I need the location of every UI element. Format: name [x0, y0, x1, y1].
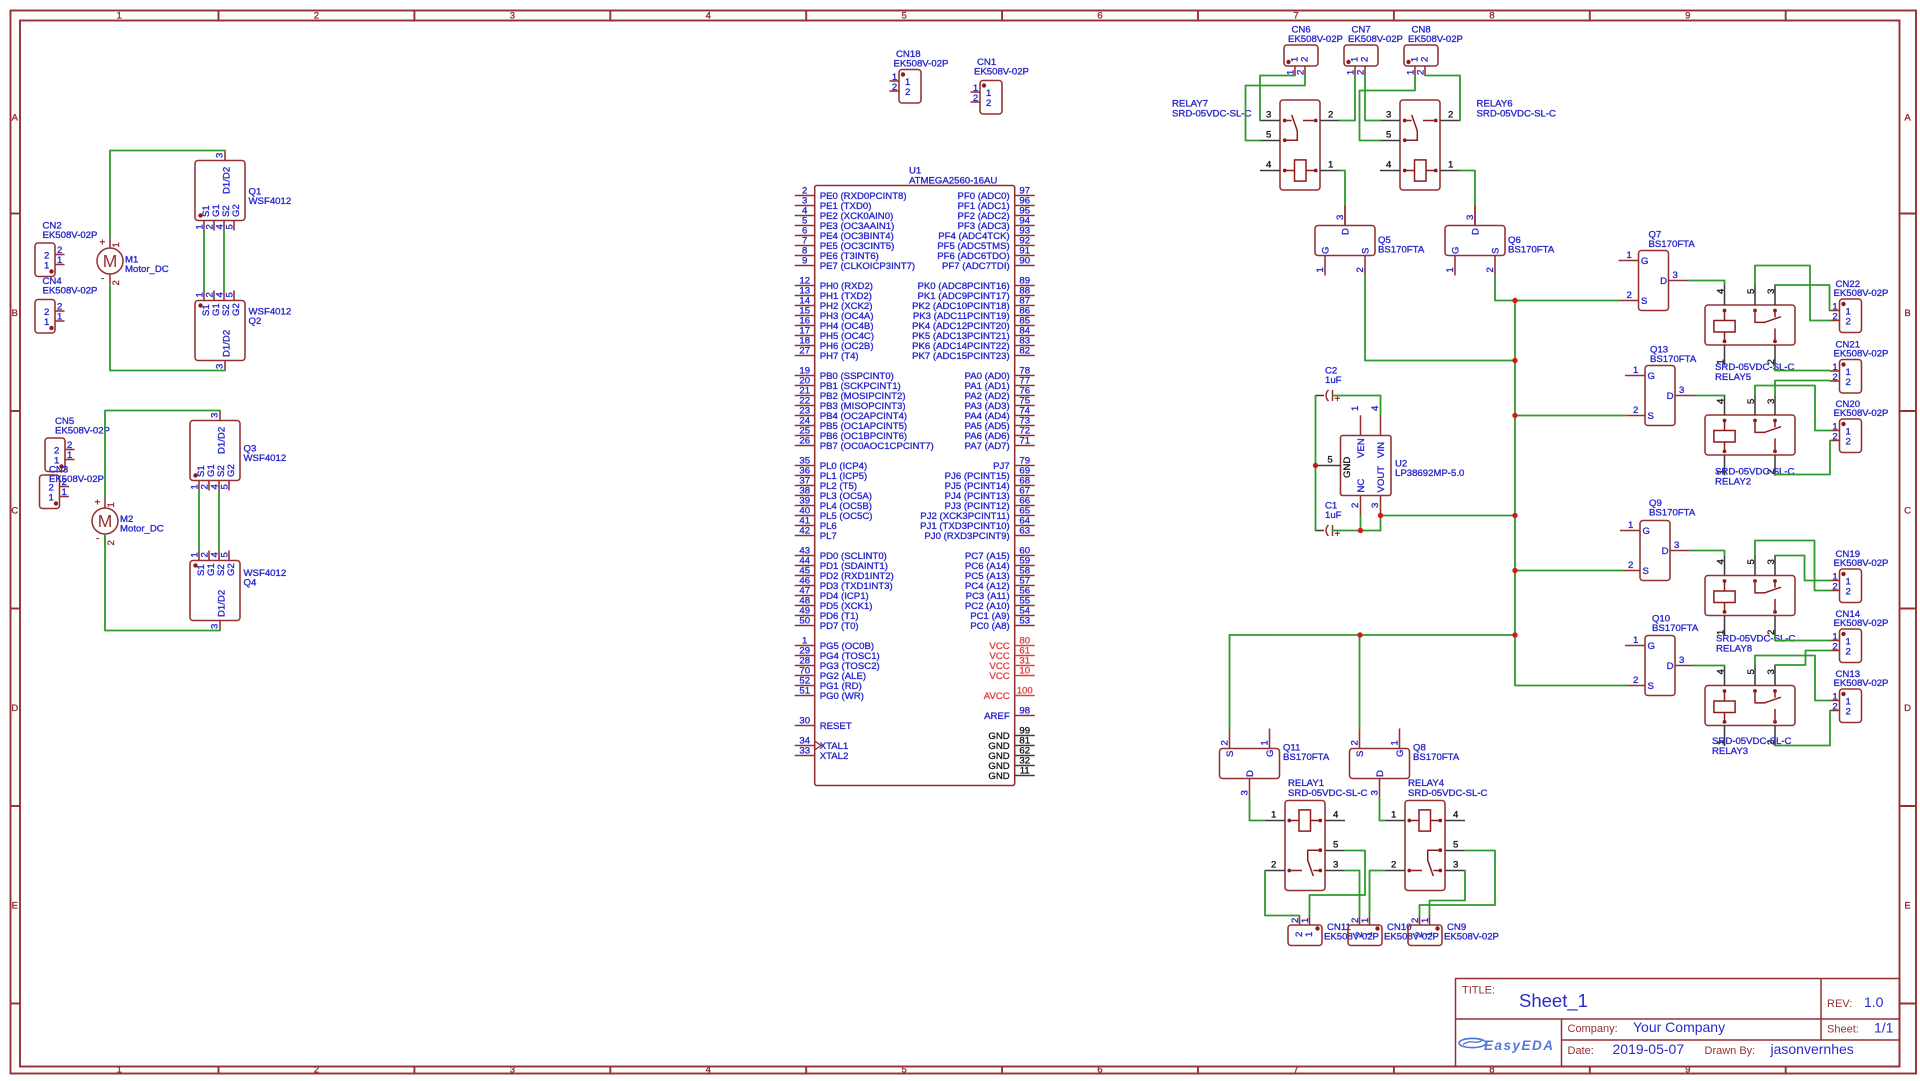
- svg-text:S: S: [1648, 411, 1654, 422]
- svg-text:1: 1: [1328, 160, 1333, 171]
- svg-text:PJ0 (RXD3PCINT9): PJ0 (RXD3PCINT9): [924, 531, 1009, 542]
- svg-text:SRD-05VDC-SL-C: SRD-05VDC-SL-C: [1408, 788, 1488, 799]
- svg-text:2: 2: [1360, 57, 1371, 62]
- svg-text:Sheet:: Sheet:: [1827, 1024, 1859, 1036]
- connector CN14: [1830, 609, 1888, 663]
- transistor Q11: [1220, 729, 1330, 799]
- junction: [1358, 528, 1363, 533]
- junction: [1357, 632, 1362, 637]
- wire RELAY8.3 to CN19.1: [1775, 556, 1830, 581]
- svg-text:Q2: Q2: [249, 316, 262, 327]
- svg-text:3: 3: [1766, 669, 1777, 674]
- svg-text:5: 5: [1746, 669, 1757, 674]
- svg-text:AREF: AREF: [984, 711, 1010, 722]
- wire CN6.2 to RELAY7.5: [1246, 76, 1306, 141]
- svg-text:SRD-05VDC-SL-C: SRD-05VDC-SL-C: [1477, 109, 1557, 120]
- svg-text:RELAY8: RELAY8: [1716, 644, 1752, 655]
- svg-text:Date:: Date:: [1568, 1045, 1594, 1057]
- svg-text:EK508V-02P: EK508V-02P: [1834, 558, 1889, 569]
- svg-text:1: 1: [49, 493, 54, 504]
- svg-text:2: 2: [1832, 582, 1837, 593]
- svg-text:1: 1: [1420, 918, 1431, 923]
- svg-text:8: 8: [1489, 11, 1494, 22]
- svg-text:A: A: [12, 113, 19, 124]
- svg-text:EK508V-02P: EK508V-02P: [49, 474, 104, 485]
- svg-text:11: 11: [1020, 766, 1030, 777]
- svg-text:E: E: [12, 900, 18, 911]
- svg-text:5: 5: [225, 224, 236, 229]
- junction: [1512, 632, 1517, 637]
- connector CN10: [1348, 916, 1439, 946]
- svg-text:42: 42: [799, 526, 810, 537]
- wire CN8.2 to RELAY6.2: [1425, 76, 1460, 121]
- svg-text:1: 1: [44, 317, 49, 328]
- svg-text:98: 98: [1019, 706, 1030, 717]
- wire RELAY3.5 to CN13.1: [1755, 656, 1830, 701]
- svg-text:D: D: [1660, 276, 1667, 287]
- svg-text:4: 4: [1716, 669, 1727, 675]
- wire CN7.1 to RELAY7.2: [1340, 76, 1355, 121]
- svg-text:5: 5: [220, 552, 231, 557]
- svg-text:S: S: [1648, 681, 1654, 692]
- svg-text:1: 1: [57, 255, 62, 266]
- svg-text:2: 2: [1350, 740, 1361, 745]
- svg-text:1: 1: [57, 312, 62, 323]
- svg-text:82: 82: [1019, 346, 1030, 357]
- svg-text:3: 3: [1679, 385, 1684, 396]
- connector CN19: [1830, 549, 1888, 603]
- wire U2.VOUT drop: [1380, 516, 1382, 531]
- wire RELAY5.3 to CN22.1: [1775, 285, 1830, 311]
- svg-text:G2: G2: [226, 563, 237, 576]
- svg-text:5: 5: [1746, 399, 1757, 404]
- svg-text:3: 3: [1370, 790, 1381, 795]
- svg-text:1: 1: [1445, 267, 1456, 272]
- svg-text:51: 51: [799, 686, 810, 697]
- svg-text:+: +: [100, 238, 106, 249]
- svg-text:EK508V-02P: EK508V-02P: [1834, 678, 1889, 689]
- svg-text:5: 5: [902, 11, 907, 22]
- svg-text:6: 6: [1097, 11, 1102, 22]
- svg-text:PG0 (WR): PG0 (WR): [820, 691, 864, 702]
- connector CN13: [1830, 669, 1888, 723]
- svg-text:SRD-05VDC-SL-C: SRD-05VDC-SL-C: [1172, 109, 1252, 120]
- svg-text:1uF: 1uF: [1325, 375, 1342, 386]
- svg-text:D1/D2: D1/D2: [217, 427, 228, 454]
- wire CN21.2 to RELAY2.3: [1775, 381, 1830, 395]
- svg-text:EK508V-02P: EK508V-02P: [1834, 288, 1889, 299]
- svg-text:90: 90: [1019, 256, 1030, 267]
- svg-text:EK508V-02P: EK508V-02P: [43, 286, 98, 297]
- svg-text:E: E: [1904, 900, 1910, 911]
- svg-text:D: D: [1667, 661, 1674, 672]
- connector CN6: [1284, 25, 1343, 76]
- connector CN2: [35, 221, 97, 277]
- svg-text:A: A: [1904, 113, 1911, 124]
- svg-text:-: -: [101, 274, 104, 285]
- wire Q9.D to RELAY8.4: [1690, 551, 1725, 556]
- junction: [1512, 568, 1517, 573]
- svg-text:6: 6: [1097, 1065, 1102, 1076]
- svg-text:D: D: [1375, 770, 1386, 777]
- svg-text:RELAY2: RELAY2: [1715, 477, 1751, 488]
- svg-text:2: 2: [1296, 70, 1307, 75]
- svg-text:VEN: VEN: [1356, 438, 1367, 458]
- svg-text:50: 50: [799, 616, 810, 627]
- svg-text:PA7 (AD7): PA7 (AD7): [965, 441, 1010, 452]
- svg-text:1: 1: [1364, 932, 1375, 937]
- svg-text:EK508V-02P: EK508V-02P: [1834, 408, 1889, 419]
- svg-text:Q4: Q4: [244, 578, 257, 589]
- svg-text:PL7: PL7: [820, 531, 837, 542]
- wire Q13.D to RELAY2.4: [1695, 395, 1725, 397]
- svg-text:Sheet_1: Sheet_1: [1519, 990, 1588, 1012]
- svg-text:2: 2: [1846, 377, 1851, 388]
- wire M1- to Q2 drain: [110, 286, 225, 371]
- svg-text:3: 3: [215, 364, 226, 369]
- svg-text:2019-05-07: 2019-05-07: [1613, 1041, 1685, 1057]
- svg-text:WSF4012: WSF4012: [244, 453, 287, 464]
- svg-text:jasonvernhes: jasonvernhes: [1770, 1041, 1854, 1057]
- svg-text:VCC: VCC: [989, 671, 1009, 682]
- svg-text:3: 3: [210, 624, 221, 629]
- connector CN9: [1408, 916, 1499, 946]
- svg-text:1: 1: [1633, 635, 1638, 646]
- svg-text:PE7 (CLKOICP3INT7): PE7 (CLKOICP3INT7): [820, 261, 915, 272]
- svg-text:3: 3: [1386, 110, 1391, 121]
- svg-text:3: 3: [1370, 503, 1381, 508]
- svg-text:53: 53: [1019, 616, 1030, 627]
- wire C2+ to U2.VIN: [1333, 396, 1381, 416]
- svg-text:EK508V-02P: EK508V-02P: [43, 230, 98, 241]
- svg-text:1: 1: [117, 1065, 122, 1076]
- svg-text:BS170FTA: BS170FTA: [1508, 245, 1555, 256]
- svg-text:PH7 (T4): PH7 (T4): [820, 351, 859, 362]
- capacitor C1: [1316, 501, 1342, 541]
- svg-text:NC: NC: [1356, 479, 1367, 493]
- svg-text:71: 71: [1019, 436, 1030, 447]
- svg-text:1: 1: [1300, 918, 1311, 923]
- svg-text:+: +: [95, 498, 101, 509]
- svg-text:PF7 (ADC7TDI): PF7 (ADC7TDI): [942, 261, 1010, 272]
- svg-text:3: 3: [1766, 289, 1777, 294]
- svg-text:1: 1: [1391, 810, 1396, 821]
- transistor Q13: [1625, 345, 1697, 426]
- svg-text:BS170FTA: BS170FTA: [1652, 623, 1699, 634]
- relay RELAY3: [1705, 665, 1795, 757]
- transistor Q5: [1315, 206, 1425, 276]
- svg-text:PK7 (ADC15PCINT23): PK7 (ADC15PCINT23): [912, 351, 1010, 362]
- wire RELAY3.2 to CN13.2: [1775, 711, 1830, 746]
- svg-text:EK508V-02P: EK508V-02P: [1288, 34, 1343, 45]
- svg-text:10: 10: [1019, 666, 1030, 677]
- svg-text:2: 2: [892, 82, 897, 93]
- wire Q10.D to RELAY3.4: [1693, 665, 1725, 667]
- junction: [1512, 413, 1517, 418]
- wire RELAY5.5 to CN22.2: [1755, 266, 1830, 321]
- svg-text:VOUT: VOUT: [1376, 466, 1387, 493]
- wire U2.VOUT to 5V rail: [1381, 515, 1516, 517]
- svg-text:3: 3: [1679, 655, 1684, 666]
- capacitor C2: [1316, 366, 1342, 406]
- svg-text:2: 2: [973, 93, 978, 104]
- wire CN6.1 to RELAY7.3: [1260, 76, 1295, 121]
- wire CN14.2 to RELAY3.3: [1775, 651, 1830, 666]
- svg-text:5: 5: [1386, 130, 1391, 141]
- svg-text:BS170FTA: BS170FTA: [1378, 245, 1425, 256]
- svg-text:TITLE:: TITLE:: [1462, 985, 1495, 997]
- junction: [1512, 298, 1517, 303]
- svg-text:G: G: [1395, 750, 1406, 757]
- IC U2 LP38692MP-5.0: [1316, 405, 1465, 516]
- connector CN11: [1288, 916, 1379, 946]
- wire Q7.D to RELAY5.4: [1689, 281, 1725, 285]
- svg-text:26: 26: [799, 436, 810, 447]
- transistor Q6: [1445, 206, 1555, 276]
- svg-text:2: 2: [106, 540, 117, 545]
- svg-text:D: D: [1904, 703, 1911, 714]
- connector CN21: [1830, 340, 1888, 394]
- svg-text:2: 2: [1846, 587, 1851, 598]
- svg-text:1/1: 1/1: [1874, 1020, 1894, 1036]
- svg-text:B: B: [1904, 308, 1910, 319]
- svg-text:LP38692MP-5.0: LP38692MP-5.0: [1395, 468, 1464, 479]
- svg-text:G: G: [1641, 256, 1648, 267]
- svg-text:G: G: [1643, 526, 1650, 537]
- svg-text:2: 2: [1846, 647, 1851, 658]
- wire RELAY8.2 to CN14.1: [1775, 636, 1830, 641]
- svg-text:D: D: [1341, 228, 1352, 235]
- connector CN4: [35, 276, 97, 333]
- svg-text:EasyEDA: EasyEDA: [1484, 1038, 1555, 1053]
- svg-text:3: 3: [510, 1065, 515, 1076]
- svg-text:PC0 (A8): PC0 (A8): [970, 621, 1009, 632]
- svg-text:2: 2: [1356, 70, 1367, 75]
- svg-text:30: 30: [799, 716, 810, 727]
- wire Q1.S1 to Q2.S1: [203, 231, 205, 291]
- svg-text:2: 2: [111, 280, 122, 285]
- svg-text:2: 2: [1832, 702, 1837, 713]
- svg-text:2: 2: [1220, 740, 1231, 745]
- svg-text:3: 3: [1766, 399, 1777, 404]
- svg-text:D1/D2: D1/D2: [222, 167, 233, 194]
- svg-text:1: 1: [106, 502, 117, 507]
- svg-text:4: 4: [1453, 810, 1459, 821]
- svg-text:EK508V-02P: EK508V-02P: [974, 66, 1029, 77]
- svg-text:1: 1: [62, 487, 67, 498]
- wire Q1.S2 to Q2.S2: [223, 231, 225, 291]
- IC U1 ATMEGA2560-16AU: [795, 166, 1035, 786]
- svg-text:PD7 (T0): PD7 (T0): [820, 621, 859, 632]
- svg-text:3: 3: [1674, 540, 1679, 551]
- svg-text:EK508V-02P: EK508V-02P: [1444, 932, 1499, 943]
- transistor Q1: [195, 151, 292, 231]
- svg-text:3: 3: [510, 11, 515, 22]
- connector CN5: [45, 416, 110, 472]
- svg-text:G: G: [1321, 247, 1332, 254]
- svg-text:27: 27: [799, 346, 810, 357]
- svg-text:D1/D2: D1/D2: [222, 330, 233, 357]
- svg-text:2: 2: [1485, 267, 1496, 272]
- svg-text:2: 2: [1846, 707, 1851, 718]
- relay RELAY4: [1385, 778, 1488, 891]
- svg-text:GND: GND: [988, 771, 1009, 782]
- svg-text:2: 2: [1448, 110, 1453, 121]
- svg-text:1: 1: [1448, 160, 1453, 171]
- wire RELAY1.2 to CN11.2: [1265, 871, 1300, 916]
- svg-text:2: 2: [1832, 432, 1837, 443]
- svg-text:1: 1: [44, 261, 49, 272]
- svg-text:M: M: [103, 251, 118, 271]
- transistor Q8: [1350, 729, 1460, 799]
- svg-text:S: S: [1641, 296, 1647, 307]
- svg-text:BS170FTA: BS170FTA: [1413, 752, 1460, 763]
- svg-text:1: 1: [1350, 406, 1361, 411]
- svg-text:EK508V-02P: EK508V-02P: [1348, 34, 1403, 45]
- svg-text:1: 1: [1424, 932, 1435, 937]
- svg-text:4: 4: [1266, 160, 1272, 171]
- transistor Q9: [1620, 498, 1696, 581]
- svg-text:1: 1: [1627, 250, 1632, 261]
- svg-text:1.0: 1.0: [1864, 994, 1884, 1010]
- svg-text:Motor_DC: Motor_DC: [125, 264, 169, 275]
- motor M1: [97, 238, 169, 286]
- svg-text:3: 3: [1266, 110, 1271, 121]
- wire RELAY6.1 to Q6.D: [1460, 171, 1475, 206]
- pin stub Q6.D: [1474, 206, 1476, 226]
- svg-text:2: 2: [1350, 503, 1361, 508]
- relay RELAY1: [1265, 778, 1368, 891]
- wire RELAY2.2 to CN20.2: [1775, 441, 1830, 476]
- svg-text:5: 5: [220, 484, 231, 489]
- svg-text:D: D: [1662, 546, 1669, 557]
- svg-text:SRD-05VDC-SL-C: SRD-05VDC-SL-C: [1288, 788, 1368, 799]
- svg-text:D: D: [1667, 391, 1674, 402]
- svg-text:RESET: RESET: [820, 721, 852, 732]
- svg-text:2: 2: [905, 87, 910, 98]
- svg-text:4: 4: [1370, 405, 1381, 411]
- svg-text:G: G: [1648, 641, 1655, 652]
- wire M2- to Q4 drain: [105, 535, 220, 631]
- svg-text:1: 1: [1628, 520, 1633, 531]
- wire C1+ to U2 outputs: [1333, 530, 1381, 532]
- svg-text:C: C: [11, 505, 18, 516]
- svg-text:EK508V-02P: EK508V-02P: [1834, 349, 1889, 360]
- svg-text:B: B: [12, 308, 18, 319]
- svg-text:7: 7: [1293, 1065, 1298, 1076]
- svg-text:WSF4012: WSF4012: [249, 196, 292, 207]
- wire Q8.D to RELAY4.1: [1380, 799, 1386, 821]
- connector CN18: [890, 49, 949, 103]
- svg-text:3: 3: [1240, 790, 1251, 795]
- svg-text:2: 2: [314, 11, 319, 22]
- junction: [1512, 513, 1517, 518]
- transistor Q4: [190, 551, 287, 631]
- transistor Q10: [1625, 614, 1699, 696]
- svg-text:D: D: [1245, 770, 1256, 777]
- wire 5V rail to Q11/Q8: [1230, 634, 1516, 636]
- svg-text:S: S: [1225, 751, 1236, 757]
- wire to Q11.S: [1229, 635, 1231, 729]
- wire 5V rail to Q10.S: [1515, 635, 1627, 686]
- svg-text:2: 2: [1846, 437, 1851, 448]
- svg-text:Your Company: Your Company: [1633, 1019, 1725, 1035]
- svg-text:D1/D2: D1/D2: [217, 590, 228, 617]
- wire RELAY8.5 to CN19.2: [1755, 541, 1830, 591]
- svg-text:1: 1: [111, 242, 122, 247]
- wire RELAY4.3 to CN9.1: [1430, 871, 1466, 916]
- svg-text:1: 1: [1390, 740, 1401, 745]
- wire U2.NC drop: [1360, 516, 1362, 531]
- svg-text:4: 4: [1716, 398, 1727, 404]
- svg-text:3: 3: [1453, 860, 1458, 871]
- svg-text:-: -: [96, 534, 99, 545]
- wire Q3.S1 to Q4.S1: [198, 491, 200, 551]
- wire Q11.D to RELAY1.1: [1250, 799, 1266, 821]
- svg-text:2: 2: [1627, 290, 1632, 301]
- wire RELAY7.1 to Q5.D: [1340, 171, 1345, 206]
- svg-text:XTAL2: XTAL2: [820, 751, 849, 762]
- svg-text:9: 9: [802, 256, 807, 267]
- relay RELAY2: [1705, 395, 1795, 488]
- svg-text:EK508V-02P: EK508V-02P: [1408, 34, 1463, 45]
- svg-text:VIN: VIN: [1376, 442, 1387, 458]
- svg-text:EK508V-02P: EK508V-02P: [894, 59, 949, 70]
- svg-text:G: G: [1648, 371, 1655, 382]
- svg-text:5: 5: [1333, 840, 1338, 851]
- svg-text:4: 4: [1716, 288, 1727, 294]
- svg-text:2: 2: [1832, 312, 1837, 323]
- svg-text:5: 5: [902, 1065, 907, 1076]
- title block: [1456, 979, 1900, 1067]
- svg-text:D: D: [11, 703, 18, 714]
- svg-text:2: 2: [314, 1065, 319, 1076]
- svg-text:Drawn By:: Drawn By:: [1705, 1045, 1756, 1057]
- svg-text:1: 1: [1271, 810, 1276, 821]
- svg-text:3: 3: [1673, 270, 1678, 281]
- svg-text:2: 2: [1633, 405, 1638, 416]
- svg-text:4: 4: [1333, 810, 1339, 821]
- svg-text:S: S: [1491, 248, 1502, 254]
- svg-text:2: 2: [1300, 57, 1311, 62]
- svg-text:Company:: Company:: [1568, 1023, 1618, 1035]
- wire M1+ to Q1 drain: [110, 151, 225, 238]
- svg-text:G2: G2: [226, 464, 237, 477]
- wire RELAY1.5 to CN11.1: [1310, 851, 1366, 916]
- connector CN20: [1830, 399, 1888, 453]
- svg-text:C: C: [1904, 505, 1911, 516]
- svg-text:1: 1: [1633, 365, 1638, 376]
- svg-text:1: 1: [1360, 918, 1371, 923]
- svg-text:S: S: [1643, 566, 1649, 577]
- svg-text:1: 1: [1315, 267, 1326, 272]
- svg-text:1: 1: [1304, 932, 1315, 937]
- wire RELAY5.2 to CN21.1: [1775, 366, 1830, 371]
- svg-text:Motor_DC: Motor_DC: [120, 524, 164, 535]
- svg-text:AVCC: AVCC: [984, 691, 1010, 702]
- transistor Q3: [190, 411, 287, 491]
- svg-text:2: 2: [1391, 860, 1396, 871]
- svg-text:G2: G2: [231, 204, 242, 217]
- svg-text:5: 5: [225, 292, 236, 297]
- svg-text:2: 2: [1832, 642, 1837, 653]
- svg-text:2: 2: [1271, 860, 1276, 871]
- svg-text:G2: G2: [231, 303, 242, 316]
- svg-text:RELAY3: RELAY3: [1712, 746, 1748, 757]
- wire CN7.2 to RELAY6.3: [1365, 76, 1380, 121]
- svg-text:2: 2: [1420, 57, 1431, 62]
- junction: [1313, 463, 1318, 468]
